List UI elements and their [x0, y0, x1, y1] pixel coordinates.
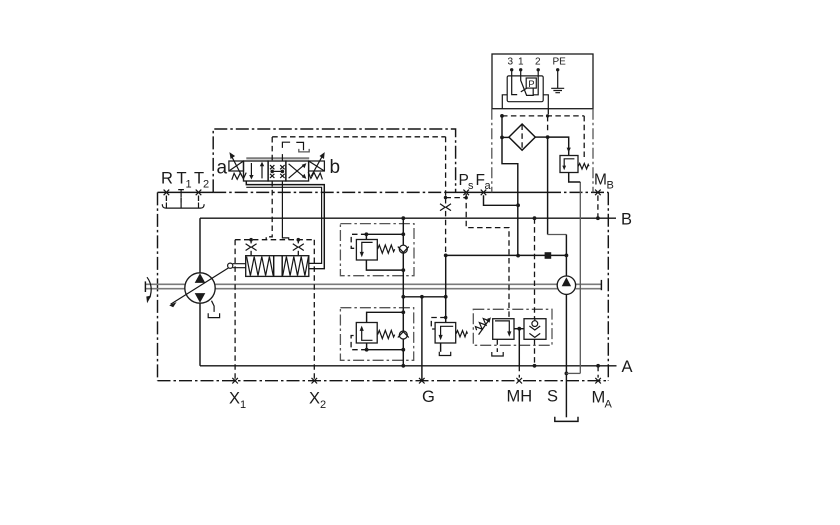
- RV3 spring: [456, 331, 468, 337]
- cut-off spring adjustment arrow: [479, 317, 491, 334]
- node B / check riser junction: [401, 216, 405, 220]
- boost check valve (A side): [398, 331, 409, 339]
- mechanical feedback bar (gray): [246, 157, 309, 159]
- pump case drain line: [212, 301, 215, 312]
- proportional solenoid a: [229, 152, 244, 176]
- svg-text:S: S: [547, 388, 558, 406]
- piston rod and link eye: [228, 263, 246, 268]
- ports R T1 T2 (case drain gallery): [162, 190, 204, 209]
- port Ps mark and pilot line: [446, 190, 510, 319]
- RV2 outlet to above-check node: [367, 312, 404, 322]
- charge pump Q2 (fixed, on shaft): [557, 276, 575, 294]
- RV1 outlet to below-check node: [366, 260, 403, 270]
- pressure cut-off block boundary: [473, 309, 552, 345]
- charge line from charge pump: [444, 254, 568, 258]
- charge pressure distribution line: [401, 295, 447, 299]
- svg-text:b: b: [330, 157, 341, 178]
- unit side walls down to housing (dash-dot): [492, 109, 593, 193]
- port MA mark and pilot stub: [595, 364, 601, 384]
- svg-text:A: A: [605, 399, 613, 411]
- RV4 outlet to suction gallery: [569, 173, 581, 183]
- terminal PE and earth symbol: [551, 68, 564, 93]
- svg-text:2: 2: [535, 57, 541, 68]
- gauge line to port MH: [518, 329, 520, 378]
- RV1 spring: [378, 245, 395, 253]
- relief inlet branch (B side): [365, 232, 406, 239]
- charge filter F1: [509, 124, 535, 150]
- check riser from B line: [402, 218, 404, 245]
- center position blocked-port symbols: [270, 165, 285, 178]
- HP relief + boost check assembly (B side) boundary box: [340, 224, 414, 276]
- pump case drain port symbol: [208, 313, 219, 317]
- positioning cylinder (stroking piston with centering springs): [246, 256, 309, 277]
- position 1 arrows (parallel): [249, 162, 264, 180]
- pilot supply gallery (dashed) over valve: [272, 136, 445, 138]
- svg-text:2: 2: [203, 179, 209, 191]
- svg-text:a: a: [485, 180, 492, 192]
- pressure sensing element P: [526, 78, 536, 90]
- svg-text:B: B: [607, 180, 614, 192]
- nozzle orifice (right pilot): [293, 241, 304, 256]
- proportional pilot valve V1 body (3 position boxes): [244, 161, 309, 181]
- charge pressure relief valve RV3: [435, 323, 456, 344]
- feedback rod line through valve to positioning piston: [281, 154, 283, 161]
- RV1 pilot line: [351, 234, 366, 248]
- charge pressure relief valve RV3 supply: [444, 297, 447, 323]
- solenoid a return spring: [232, 173, 246, 180]
- position 3 arrows (crossed): [289, 163, 307, 179]
- RV3 pilot line: [431, 318, 445, 330]
- svg-text:MH: MH: [507, 388, 533, 406]
- filter outlet down to charge line (with Fa tee): [502, 137, 518, 255]
- valve output channel (double line) to piston right chamber: [246, 181, 324, 269]
- outer housing boundary right edge: [607, 192, 609, 380]
- port X2 mark: [312, 378, 318, 384]
- svg-text:R: R: [161, 170, 173, 188]
- electric unit outer box (pressure switch block): [492, 54, 593, 109]
- relief inlet branch (A side): [365, 343, 405, 352]
- svg-text:PE: PE: [553, 57, 567, 68]
- cut-off adjustable spring: [474, 316, 490, 332]
- svg-text:3: 3: [508, 57, 514, 68]
- svg-text:G: G: [422, 388, 435, 406]
- nozzle orifice (left pilot): [246, 241, 257, 256]
- filter bypass feed with flow arrow: [548, 137, 571, 155]
- svg-text:2: 2: [320, 399, 326, 411]
- svg-text:M: M: [594, 172, 607, 189]
- positioning cylinder pilot box / X1 X2 pilot lines (dashed): [235, 238, 314, 381]
- boost check valve (B side): [398, 245, 409, 253]
- terminal 3: [510, 68, 517, 94]
- port X1 mark: [232, 378, 238, 384]
- swashplate variable arrow through pump: [169, 268, 229, 308]
- gauge line to port G: [421, 297, 423, 381]
- svg-text:P: P: [528, 79, 534, 90]
- proportional solenoid b: [309, 152, 325, 176]
- pilot passage from valve (left) to positioning piston: [271, 137, 273, 161]
- pump port riser (B side): [199, 218, 201, 273]
- svg-text:1: 1: [240, 399, 246, 411]
- port MB mark and pilot stub: [595, 190, 601, 221]
- pilot supply drop with nozzle to charge line: [440, 137, 451, 256]
- work line A: [200, 365, 617, 367]
- charge pump suction line to S: [565, 294, 567, 373]
- filter bypass relief valve RV4: [560, 156, 578, 173]
- switch body outline: [502, 76, 548, 109]
- plugged passage in charge line: [545, 252, 552, 259]
- pressure cut-off valve V2: [493, 319, 514, 340]
- bypass return line from MB relief to suction: [566, 372, 580, 374]
- filter assembly dashed enclosure: [500, 109, 584, 158]
- RV2 spring: [378, 330, 395, 338]
- RV2 pilot line: [351, 336, 367, 350]
- main pump Q1 (variable displacement, bidirectional): [185, 273, 215, 303]
- filter inlet side piping: [500, 116, 509, 139]
- pump port riser (A side): [199, 303, 201, 366]
- filter inlet junction and riser from charge pump: [535, 135, 566, 255]
- port gallery line (top edge of main block): [158, 191, 214, 193]
- control-module boundary box (dash-dot, around pilot valve): [213, 129, 455, 192]
- cut-off drain to case: [492, 339, 503, 356]
- outer housing boundary bottom edge: [158, 380, 609, 382]
- charge supply riser to valves: [445, 255, 447, 296]
- svg-text:s: s: [468, 180, 474, 192]
- rotation direction arrow: [146, 277, 151, 303]
- riser above check: [402, 297, 404, 331]
- node S/bypass junction: [565, 372, 569, 376]
- svg-text:M: M: [592, 389, 606, 407]
- svg-text:1: 1: [518, 57, 524, 68]
- svg-text:1: 1: [186, 179, 192, 191]
- riser below check: [402, 253, 404, 297]
- solenoid b return spring: [308, 172, 322, 179]
- svg-text:a: a: [217, 158, 228, 179]
- RV4 spring: [578, 163, 589, 169]
- HP relief valve RV1 (B side): [356, 240, 377, 261]
- terminal 1 and switch contact: [519, 68, 533, 95]
- work line B: [200, 217, 616, 219]
- cut-off output node to shuttle: [514, 327, 524, 331]
- HP relief + boost check assembly (A side) boundary box: [340, 308, 413, 361]
- shaft end flange (left): [144, 281, 146, 292]
- drive shaft (double line): [145, 284, 601, 288]
- suction strainer symbol: [555, 417, 578, 422]
- svg-text:X: X: [309, 390, 320, 408]
- svg-text:X: X: [229, 390, 240, 408]
- port G mark: [419, 378, 425, 384]
- HP relief valve RV2 (A side): [356, 323, 377, 344]
- charge pump outlet riser: [565, 255, 567, 276]
- RV3 drain to case: [439, 343, 450, 356]
- check riser to A line: [402, 339, 404, 366]
- stroke limiter linkage symbol: [282, 142, 309, 152]
- shuttle sensing line to A: [533, 339, 537, 367]
- suction line S through housing to strainer: [565, 373, 567, 417]
- shaft end bar (right): [600, 280, 602, 290]
- svg-text:B: B: [621, 211, 632, 229]
- shuttle / check cartridge of cut-off: [524, 319, 546, 340]
- svg-text:A: A: [622, 358, 633, 376]
- outer housing boundary (dash-dot) left edge: [157, 192, 159, 380]
- shuttle sensing line from B: [533, 216, 537, 318]
- port MH mark: [516, 378, 522, 384]
- port Fa mark and line to filter outlet: [481, 190, 518, 206]
- terminal 2: [533, 68, 540, 95]
